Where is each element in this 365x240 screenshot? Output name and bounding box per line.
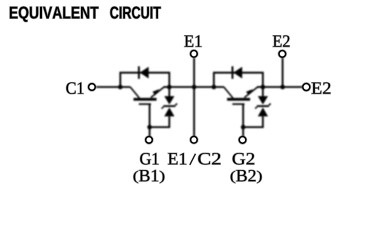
- label E2 top: [273, 35, 290, 46]
- IGBT block 2: [212, 66, 271, 136]
- zener Z2 right wing: [269, 104, 271, 106]
- transistor Q2 gate bar: [232, 103, 244, 105]
- node E junction dot: [167, 85, 172, 90]
- transistor Q2 collector diagonal: [224, 87, 233, 98]
- zener Z2 center bar: [257, 105, 269, 107]
- label (B1): [134, 170, 165, 183]
- wire C1 to Q1 collector: [96, 86, 130, 88]
- node C2 junction dot: [212, 85, 217, 90]
- node E2 riser junction dot: [280, 85, 285, 90]
- transistor Q2 emitter diagonal: [244, 87, 257, 98]
- label C1: [66, 82, 83, 94]
- zener Z2 left wing: [255, 107, 257, 109]
- label G1: [140, 153, 158, 165]
- transistor Q1 collector diagonal: [130, 87, 139, 98]
- label G2: [233, 153, 255, 165]
- diode D1 freewheel triangle: [140, 67, 149, 79]
- wire E2 riser: [282, 58, 284, 87]
- diode D1 freewheel cathode bar: [138, 66, 140, 79]
- terminal E1/C2 bottom: [191, 137, 198, 144]
- zener Z1 right wing: [175, 104, 177, 106]
- zener Z2 bottom triangle: [258, 108, 268, 117]
- node C junction dot: [118, 85, 123, 90]
- zener Z2 gate-emitter top triangle: [258, 96, 268, 104]
- wire zener2 bottom to gate node: [243, 117, 263, 128]
- terminal E2 right: [303, 84, 310, 91]
- wire zener bottom to gate node: [150, 117, 170, 128]
- terminal G1: [146, 137, 153, 144]
- label C2 of E1/C2: [198, 153, 220, 165]
- transistor Q1 body bar: [134, 98, 157, 101]
- label E1 top: [184, 35, 201, 46]
- wire node E down to zener Z1: [168, 87, 170, 97]
- transistor Q1 emitter diagonal: [151, 87, 164, 98]
- label E2 right: [312, 82, 331, 93]
- zener Z1 bottom triangle: [164, 108, 174, 117]
- wire riser left to diode rail: [120, 73, 169, 87]
- zener Z1 left wing: [162, 107, 164, 109]
- label E1/C2: [168, 153, 186, 164]
- zener Z1 center bar: [163, 105, 175, 107]
- wire emitter to node E: [163, 86, 169, 88]
- wire emitter to node E2: [257, 86, 263, 88]
- wire E1 to E1/C2 line to Q2 collector: [169, 86, 224, 88]
- node E1/C2 junction dot: [192, 85, 197, 90]
- transistor Q2 body bar: [227, 98, 250, 101]
- wire gate drop 2: [242, 104, 244, 136]
- wire riser to diode rail 2: [214, 73, 263, 87]
- wire E2 node to E2 terminal: [263, 86, 303, 88]
- terminal C1: [89, 84, 96, 91]
- label E1/C2 slash: [190, 154, 196, 165]
- diode D2 freewheel cathode bar: [232, 66, 234, 79]
- title word CIRCUIT: [110, 7, 161, 19]
- IGBT block 1: [118, 66, 177, 136]
- terminal E1 top: [191, 51, 198, 58]
- terminal E2 top: [279, 51, 286, 58]
- diode D2 freewheel triangle: [233, 67, 242, 79]
- title EQUIVALENT CIRCUIT: [10, 7, 99, 22]
- wire node E2 down to zener Z2: [262, 87, 264, 97]
- wire gate drop: [149, 104, 151, 136]
- wire E1/C2 vertical: [193, 58, 195, 136]
- transistor Q1 gate bar: [139, 103, 151, 105]
- node E2 junction dot: [261, 85, 266, 90]
- node G2 junction dot: [241, 125, 246, 130]
- zener Z1 gate-emitter top triangle: [164, 96, 174, 104]
- transistor Q1 emitter arrow: [152, 89, 159, 95]
- node G junction dot: [147, 125, 152, 130]
- label (B2): [231, 170, 262, 183]
- terminal G2: [239, 137, 246, 144]
- transistor Q2 emitter arrow: [246, 89, 253, 95]
